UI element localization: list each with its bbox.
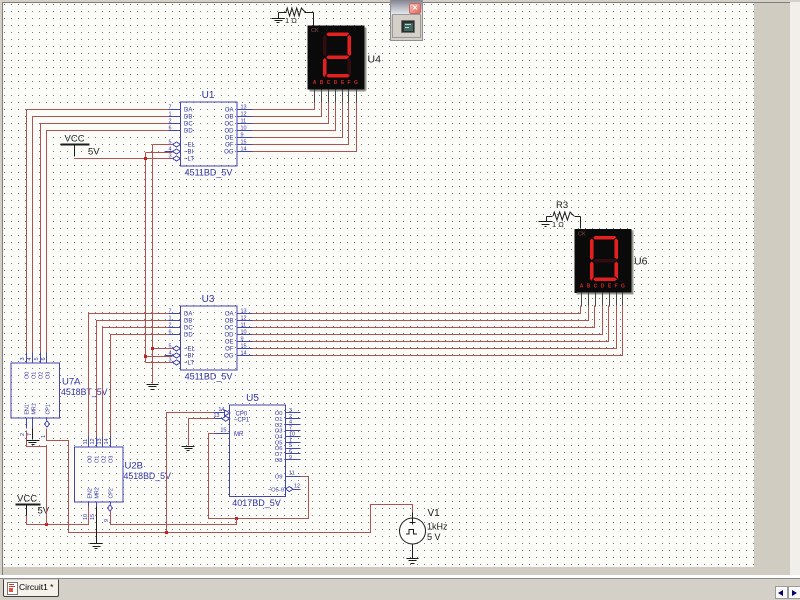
- junction MR-O9 / CPB tap: [235, 517, 238, 520]
- ground (U5 ~CP1): [182, 447, 195, 451]
- wire U1 OF to U4 pin F: [253, 103, 349, 145]
- junction ~BI U3: [144, 355, 147, 358]
- svg-text:O2: O2: [39, 372, 45, 379]
- svg-text:OG: OG: [224, 354, 234, 360]
- svg-text:CK: CK: [311, 28, 319, 34]
- svg-text:4: 4: [168, 350, 171, 356]
- junction VCC / ~LT U1: [144, 157, 147, 160]
- wire U3 OA to U6 pin A: [253, 306, 581, 314]
- tab scroll arrow right: [788, 586, 800, 599]
- svg-text:U3: U3: [202, 294, 215, 305]
- svg-text:12: 12: [241, 315, 247, 321]
- svg-text:11: 11: [241, 118, 247, 124]
- svg-text:OE: OE: [225, 136, 234, 142]
- svg-text:14: 14: [241, 350, 247, 356]
- svg-text:D: D: [601, 284, 605, 290]
- svg-text:4017BD_5V: 4017BD_5V: [232, 498, 281, 508]
- junction clock / CP0: [165, 531, 168, 534]
- svg-text:O3: O3: [109, 456, 115, 463]
- svg-text:VCC: VCC: [17, 494, 37, 505]
- IC U2B 4518BD_5V: [75, 437, 172, 523]
- clock source V1 1kHz 5V: [400, 508, 449, 559]
- svg-text:7: 7: [168, 308, 171, 314]
- svg-text:15: 15: [241, 343, 247, 349]
- toolbar close button: [409, 3, 421, 14]
- svg-text:5: 5: [34, 357, 40, 360]
- svg-text:OA: OA: [225, 312, 234, 318]
- wire tap to U2B CPB: [111, 511, 237, 525]
- svg-text:O1: O1: [32, 372, 38, 379]
- svg-text:U5: U5: [246, 393, 259, 404]
- svg-text:4: 4: [168, 146, 171, 152]
- wire U1 OG to U4 pin G: [253, 103, 357, 152]
- wire U2B O3 to U3 DD: [111, 335, 169, 437]
- svg-text:VCC: VCC: [65, 134, 85, 145]
- svg-text:~LT: ~LT: [184, 157, 194, 163]
- wire U2B O1 to U3 DB: [97, 321, 169, 437]
- svg-text:G: G: [621, 284, 625, 290]
- ground (V1): [407, 559, 419, 564]
- svg-text:DC: DC: [184, 122, 193, 128]
- VCC symbol (bottom left) 5V: [16, 494, 50, 517]
- svg-text:5V: 5V: [88, 147, 100, 158]
- svg-text:~LT: ~LT: [184, 361, 194, 367]
- svg-text:15: 15: [241, 139, 247, 145]
- wire U1 OD to U4 pin D: [253, 103, 336, 131]
- svg-text:EN1: EN1: [25, 404, 31, 414]
- svg-text:13: 13: [97, 438, 103, 444]
- wire VCC bottom rail: [27, 507, 89, 525]
- svg-text:4518BT_5V: 4518BT_5V: [61, 387, 108, 397]
- wire VCC branch vertical x145: [145, 153, 147, 363]
- svg-text:DA: DA: [184, 108, 192, 114]
- svg-text:U1: U1: [202, 90, 215, 101]
- svg-text:CP1: CP1: [46, 404, 52, 414]
- wire U2B O0 to U3 DA: [89, 314, 169, 437]
- junction ~EL U3: [151, 347, 154, 350]
- ground (U7A MRA): [27, 441, 40, 445]
- wire resistor to U4 CK pin: [313, 13, 315, 27]
- svg-text:DD: DD: [184, 333, 193, 339]
- svg-text:V1: V1: [428, 508, 441, 519]
- wire U5 CP0 to clock net: [167, 413, 215, 533]
- wire U7A O1 to U1 DB: [33, 117, 169, 353]
- svg-text:OC: OC: [225, 326, 235, 332]
- svg-text:G: G: [354, 80, 358, 86]
- svg-text:1: 1: [168, 111, 171, 117]
- svg-text:7: 7: [168, 104, 171, 110]
- svg-text:14: 14: [241, 146, 247, 152]
- svg-text:B: B: [587, 284, 591, 290]
- svg-text:O0: O0: [25, 372, 31, 379]
- floating instruments toolbar window: [390, 0, 423, 41]
- wire U1 ~EL: [153, 144, 173, 146]
- svg-text:C: C: [594, 284, 598, 290]
- svg-text:O2: O2: [102, 456, 108, 463]
- svg-text:OE: OE: [225, 340, 234, 346]
- wire node to U3 ~BI: [146, 356, 173, 358]
- svg-text:U6: U6: [634, 256, 648, 268]
- svg-text:13: 13: [241, 308, 247, 314]
- svg-text:2: 2: [168, 322, 171, 328]
- wire U3 OB to U6 pin B: [253, 306, 589, 321]
- 7-segment display U4 (showing 2): [308, 26, 382, 103]
- svg-text:C: C: [327, 80, 331, 86]
- svg-text:2: 2: [168, 118, 171, 124]
- wire U7A O0 to U1 DA: [27, 110, 169, 353]
- svg-text:DB: DB: [184, 115, 192, 121]
- svg-text:11: 11: [241, 322, 247, 328]
- svg-text:DC: DC: [184, 326, 193, 332]
- svg-text:A: A: [313, 80, 317, 86]
- wire U1 OE to U4 pin E: [253, 103, 343, 138]
- svg-text:O0: O0: [88, 456, 94, 463]
- svg-text:1: 1: [168, 315, 171, 321]
- ground (~EL rail): [147, 385, 159, 390]
- IC U3 4511BD_5V: [165, 294, 253, 382]
- svg-text:~BI: ~BI: [184, 354, 194, 360]
- svg-text:F: F: [347, 80, 350, 86]
- svg-text:OF: OF: [225, 347, 234, 353]
- svg-text:CK: CK: [578, 232, 586, 238]
- svg-text:9: 9: [241, 132, 244, 138]
- svg-text:OA: OA: [225, 108, 234, 114]
- ground (top resistor): [272, 19, 285, 23]
- wire U3 OG to U6 pin G: [253, 306, 623, 356]
- svg-text:OD: OD: [225, 333, 235, 339]
- svg-text:9: 9: [289, 455, 292, 461]
- svg-text:~EL: ~EL: [184, 143, 196, 149]
- wire U7A O3 to U1 DD: [47, 131, 169, 353]
- wire U2B O2 to U3 DC: [103, 328, 169, 437]
- ground (R3): [539, 222, 553, 227]
- svg-text:DB: DB: [184, 319, 192, 325]
- svg-text:15: 15: [220, 428, 226, 434]
- svg-text:O3: O3: [46, 372, 52, 379]
- svg-text:4: 4: [27, 357, 33, 360]
- svg-text:12: 12: [90, 438, 96, 444]
- VCC symbol (top) 5V: [61, 134, 101, 158]
- svg-text:A: A: [580, 284, 584, 290]
- svg-text:~O5-9: ~O5-9: [268, 488, 284, 494]
- wire ~EL rail vertical x152: [152, 145, 154, 384]
- svg-text:9: 9: [241, 336, 244, 342]
- svg-text:MR2: MR2: [95, 487, 101, 498]
- op IC U1 4511BD_5V: [165, 90, 253, 178]
- svg-text:1kHz: 1kHz: [427, 522, 448, 532]
- wire node to U3 ~LT: [146, 362, 173, 364]
- svg-text:O8: O8: [275, 458, 283, 464]
- wire U5 ~CP1 to ground: [189, 419, 215, 446]
- resistor R? 1-ohm (top, CK pull for U4): [279, 8, 314, 25]
- svg-text:O9: O9: [275, 474, 283, 480]
- wire U1 OA to U4 pin A: [253, 103, 315, 110]
- ground (U2B MRB): [90, 544, 103, 549]
- wire U1 OC to U4 pin C: [253, 103, 329, 124]
- svg-text:2: 2: [20, 433, 26, 436]
- wire VCC to U1 ~LT: [75, 158, 173, 160]
- wire U3 ~EL: [153, 348, 173, 350]
- svg-text:4518BD_5V: 4518BD_5V: [124, 471, 172, 481]
- svg-text:OB: OB: [225, 319, 234, 325]
- svg-text:O1: O1: [95, 456, 101, 463]
- wire U1 OB to U4 pin B: [253, 103, 322, 117]
- resistor R3 1-ohm (CK pull for U6): [547, 200, 581, 229]
- svg-text:15: 15: [90, 514, 96, 520]
- wire U3 OD to U6 pin D: [253, 306, 603, 335]
- svg-text:~BI: ~BI: [184, 150, 194, 156]
- tab scroll arrow left: [775, 586, 788, 599]
- svg-text:OD: OD: [225, 129, 235, 135]
- svg-text:OB: OB: [225, 115, 234, 121]
- svg-text:R3: R3: [556, 200, 568, 211]
- wire U7A ENA branch: [27, 431, 47, 525]
- svg-text:11: 11: [289, 471, 295, 477]
- svg-text:B: B: [320, 80, 324, 86]
- sheet tab Circuit1: [3, 579, 59, 597]
- svg-text:1 Ω: 1 Ω: [285, 16, 297, 25]
- svg-text:12: 12: [294, 484, 300, 490]
- svg-text:10: 10: [241, 329, 247, 335]
- svg-text:3: 3: [20, 357, 26, 360]
- svg-text:13: 13: [241, 104, 247, 110]
- svg-text:CP2: CP2: [109, 488, 115, 498]
- svg-text:EN2: EN2: [88, 488, 94, 498]
- svg-text:DD: DD: [184, 129, 193, 135]
- junction VCC rail / ENA branch: [45, 523, 48, 526]
- svg-text:10: 10: [241, 125, 247, 131]
- svg-text:11: 11: [83, 439, 89, 445]
- svg-text:U7A: U7A: [62, 377, 81, 388]
- svg-text:6: 6: [41, 357, 47, 360]
- svg-text:12: 12: [241, 111, 247, 117]
- svg-text:D: D: [334, 80, 338, 86]
- svg-text:OF: OF: [225, 143, 234, 149]
- svg-text:U2B: U2B: [125, 461, 143, 472]
- wire U5 MR to O9: [209, 434, 309, 519]
- svg-text:1 Ω: 1 Ω: [552, 220, 564, 229]
- svg-text:4511BD_5V: 4511BD_5V: [185, 372, 233, 382]
- svg-text:F: F: [614, 284, 617, 290]
- svg-text:DA: DA: [184, 312, 192, 318]
- 7-segment display U6 (showing 0): [575, 229, 648, 307]
- wire R3 to U6 CK pin: [580, 217, 582, 229]
- svg-text:MR1: MR1: [32, 403, 38, 414]
- IC U5 4017BD_5V: [213, 393, 300, 508]
- tab document icon: [7, 582, 18, 595]
- wire node to U1 ~BI: [146, 152, 173, 154]
- svg-text:~EL: ~EL: [184, 347, 196, 353]
- svg-text:5 V: 5 V: [427, 532, 441, 542]
- IC U7A 4518BT_5V: [11, 353, 108, 439]
- svg-text:MR: MR: [234, 432, 244, 438]
- svg-text:6: 6: [168, 125, 171, 131]
- wire U7A MRA to ground: [32, 429, 34, 440]
- wire R3 to ground: [546, 217, 548, 222]
- toolbar instrument button: [392, 14, 421, 38]
- svg-text:OG: OG: [224, 150, 234, 156]
- wire U3 OF to U6 pin F: [253, 306, 617, 349]
- svg-text:5V: 5V: [38, 506, 50, 517]
- wire U3 OE to U6 pin E: [253, 306, 609, 342]
- wire U2B MRB to ground: [96, 507, 98, 544]
- wire U7A CPA to clock net: [47, 429, 413, 533]
- svg-text:U4: U4: [368, 54, 382, 66]
- svg-text:14: 14: [104, 438, 110, 444]
- svg-text:4511BD_5V: 4511BD_5V: [185, 168, 233, 178]
- svg-text:~CP1: ~CP1: [234, 418, 250, 424]
- wire U3 OC to U6 pin C: [253, 306, 595, 328]
- svg-text:9: 9: [104, 519, 110, 522]
- svg-text:OC: OC: [225, 122, 235, 128]
- wire resistor to ground (top): [278, 13, 280, 19]
- svg-text:6: 6: [168, 329, 171, 335]
- wire U7A O2 to U1 DC: [41, 124, 169, 353]
